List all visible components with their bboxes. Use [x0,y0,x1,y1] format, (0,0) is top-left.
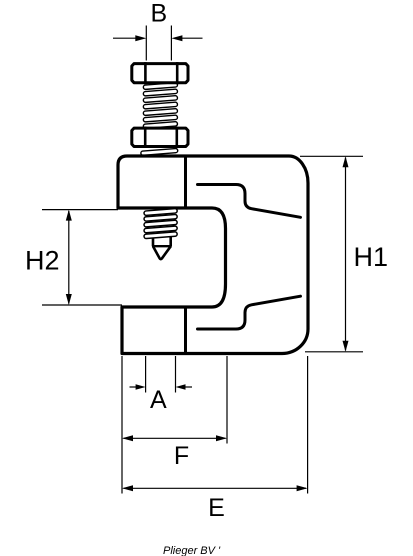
clamp body outline [118,156,308,354]
bolt thread inside mouth [144,209,177,239]
svg-text:E: E [208,494,225,522]
dimension A extension line left [145,356,147,393]
svg-text:Plieger BV ': Plieger BV ' [163,545,221,556]
dimension H2 extension line top [42,209,118,211]
dimension F line with arrows [122,435,227,441]
svg-text:A: A [150,386,167,414]
bolt tip chamfer line [152,245,172,247]
dimension B extension line left [145,26,147,61]
lower hex nut [132,127,188,148]
dimension H1 extension line top [300,155,363,157]
dimension E extension line left [121,356,123,494]
dimension F extension line right [226,356,228,444]
dimension H2 extension line bottom [42,304,122,306]
svg-text:H1: H1 [354,242,389,272]
body front-face line upper [184,156,187,208]
dimension E extension line right [307,356,309,494]
svg-text:F: F [174,442,189,470]
dimension B arrow left [113,35,146,41]
dimension H1 extension line bottom [305,351,363,353]
bolt thread coil below lower nut [141,148,178,155]
dimension E line with arrows [122,485,308,491]
body inner web contour upper [198,185,301,218]
dimension H2 line with arrows [66,210,72,305]
dimension A arrow right [176,384,193,390]
bolt tip shank [153,232,171,246]
bolt cone point [153,246,171,259]
bolt thread between nuts [143,83,177,129]
dimension H1 line with arrows [343,156,349,351]
dimension A extension line right [175,356,177,393]
dimension B arrow right [171,35,202,41]
body inner web contour lower [198,296,301,329]
dimension B extension line right [170,26,172,61]
svg-text:H2: H2 [25,246,60,276]
top hex nut [132,62,188,84]
dimension A arrow left [130,384,146,390]
body front-face line lower [184,307,187,354]
svg-text:B: B [150,0,167,28]
